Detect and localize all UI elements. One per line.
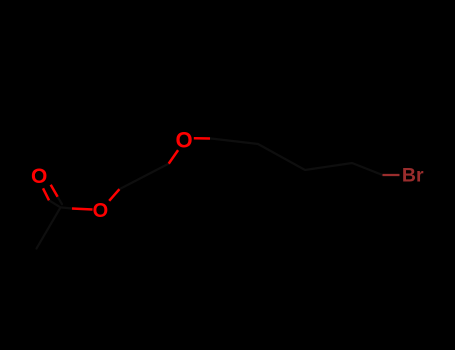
bond O2-C2 (red half) xyxy=(109,189,119,201)
svg-text:Br: Br xyxy=(402,164,424,186)
bond C1-O2 (red half near ester oxygen) xyxy=(72,209,93,210)
bond C3-O3 (red half, down-left of ether O) xyxy=(169,150,178,164)
bond O3-C4 (red half, right of ether O) xyxy=(194,137,210,140)
svg-text:O: O xyxy=(31,165,47,188)
svg-text:O: O xyxy=(176,127,193,152)
svg-text:O: O xyxy=(93,200,109,222)
wire: black carbon-side bond halves (near-invisible dark gray) xyxy=(37,138,383,248)
bond C-Br (brown half near bromine) xyxy=(383,174,400,176)
double bond C1=O1 (red half, two parallel lines) xyxy=(43,185,58,201)
